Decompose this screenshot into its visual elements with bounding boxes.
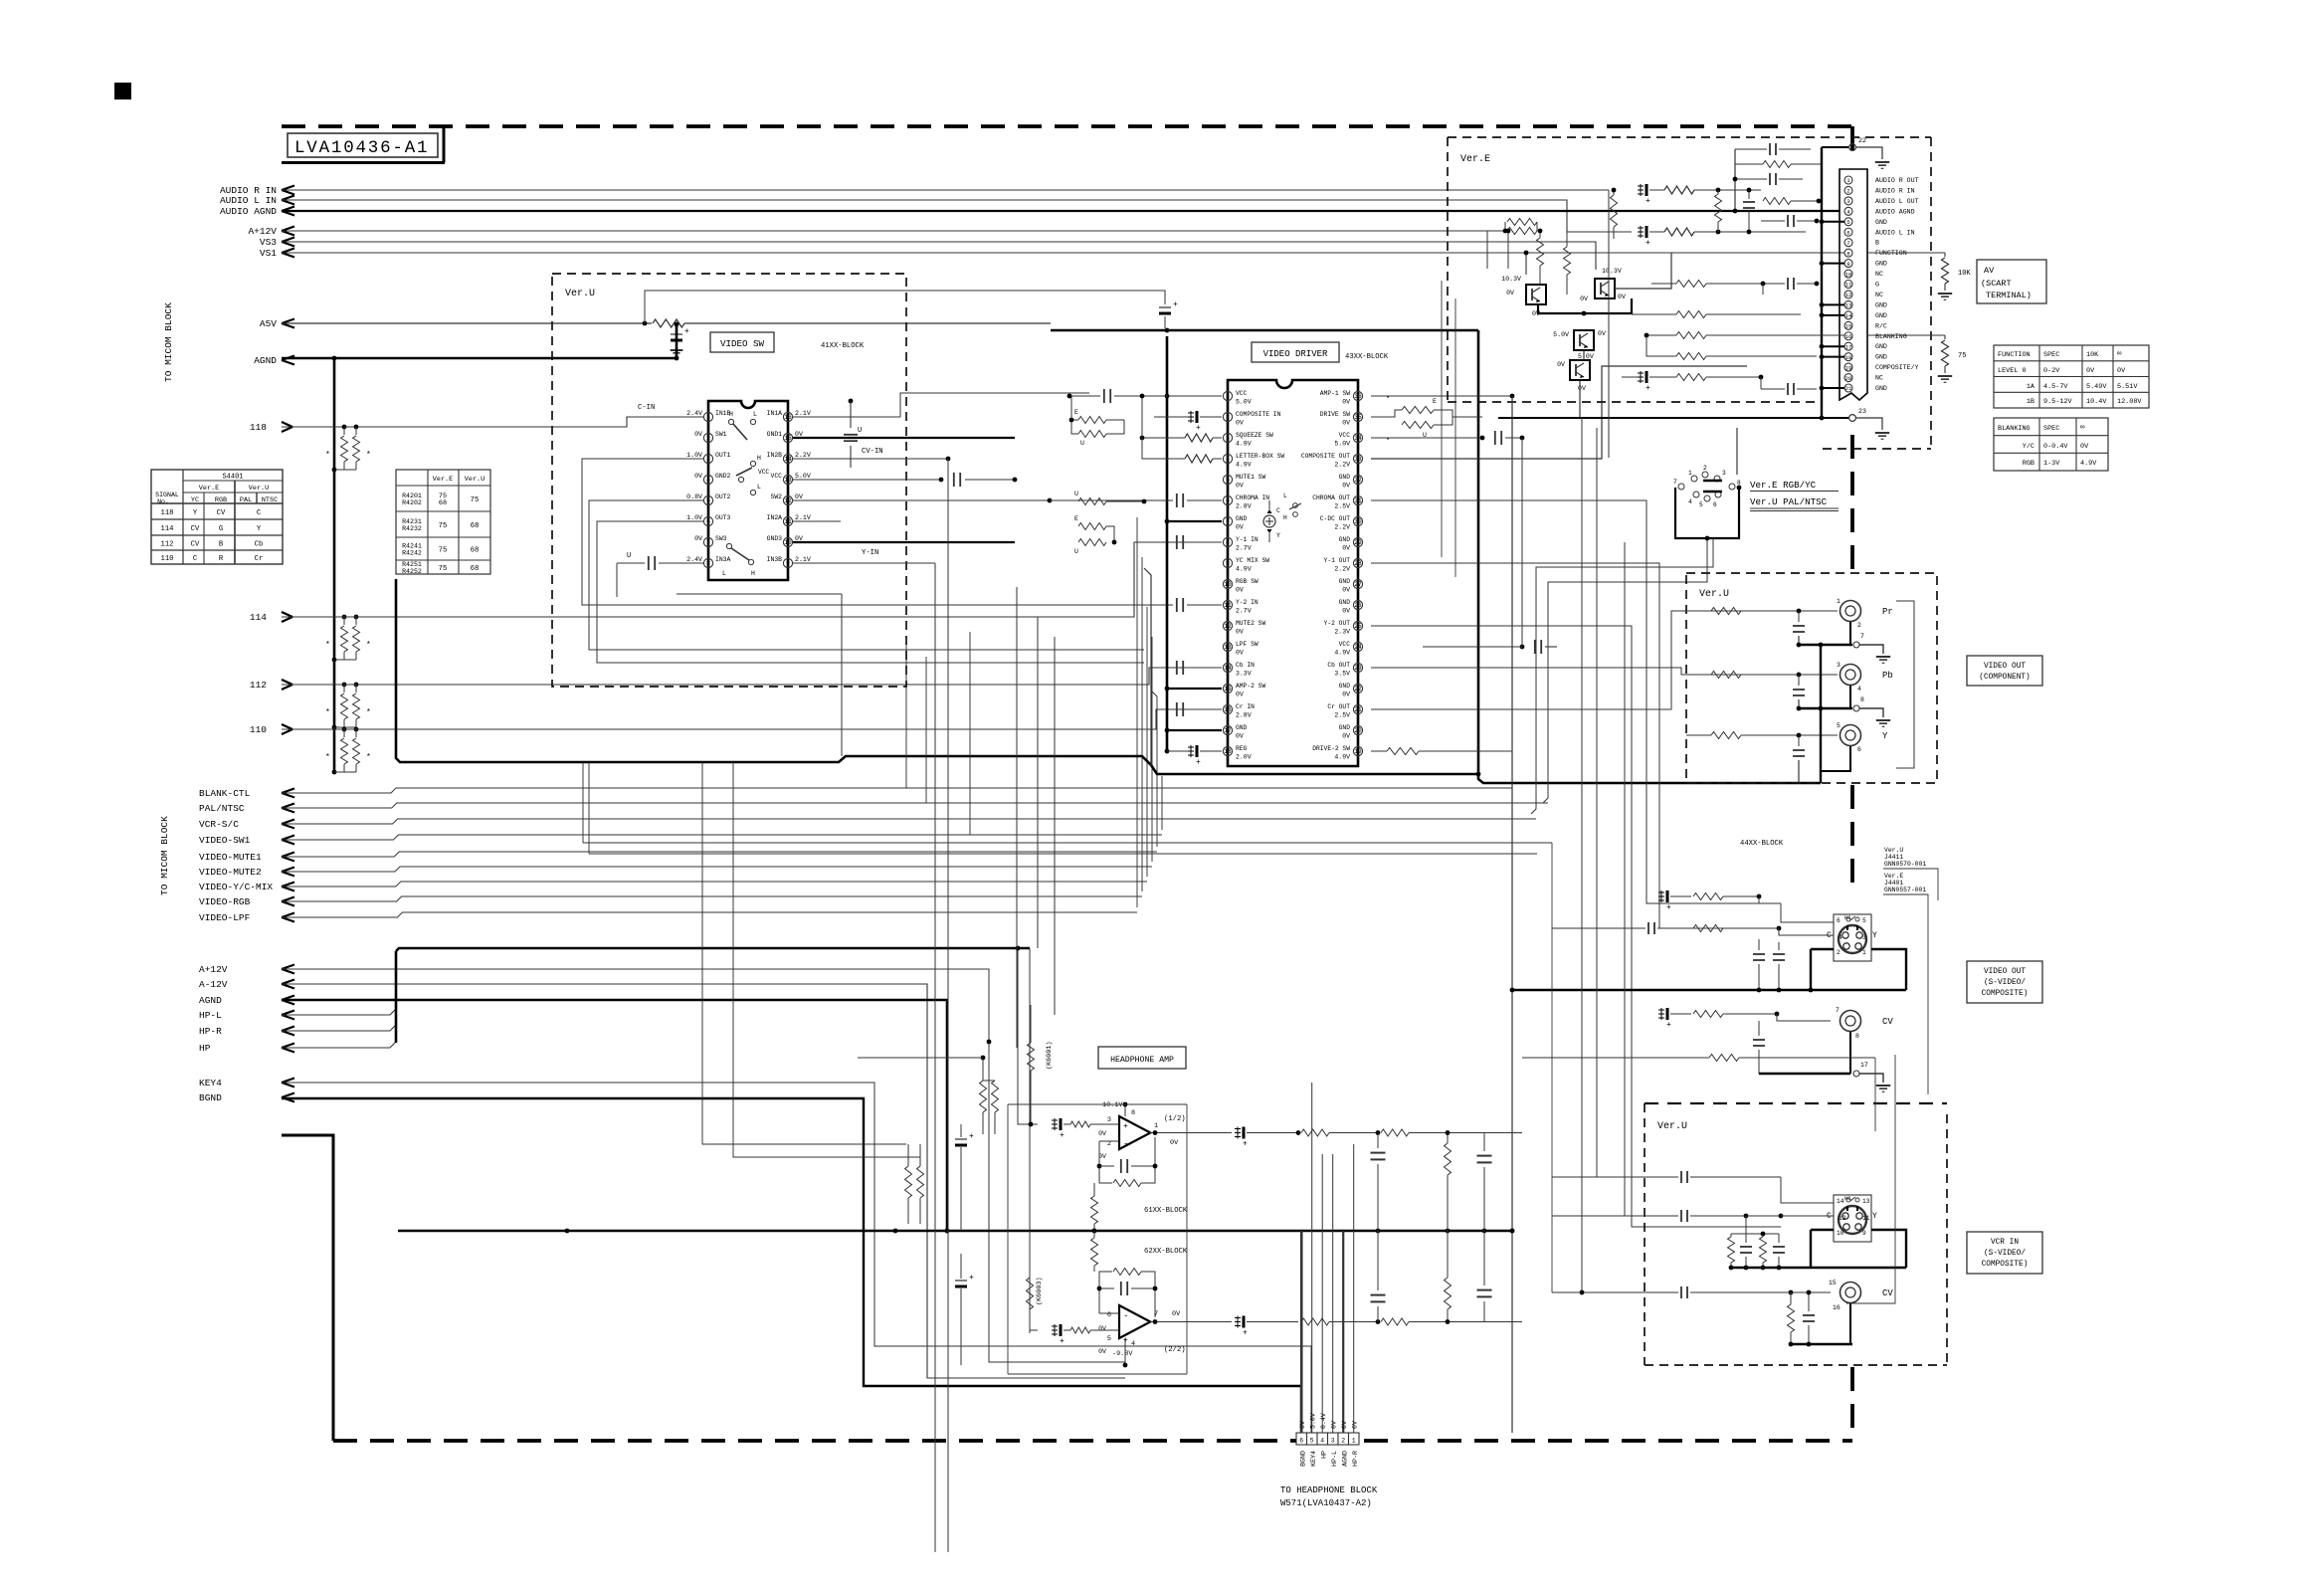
svg-text:9: 9 [1862, 1230, 1866, 1237]
svg-text:3: 3 [1107, 1116, 1111, 1124]
svg-text:11: 11 [1862, 1215, 1870, 1222]
svg-text:REG: REG [1236, 745, 1248, 752]
svg-text:118: 118 [161, 509, 174, 517]
svg-text:GND: GND [1875, 312, 1887, 319]
svg-text:5: 5 [1226, 477, 1230, 484]
svg-text:8: 8 [1846, 250, 1850, 257]
svg-text:1.0V: 1.0V [686, 452, 702, 459]
svg-text:L: L [757, 484, 761, 491]
svg-text:VCC: VCC [1339, 641, 1351, 648]
svg-text:GND: GND [1339, 683, 1351, 690]
svg-text:IN3A: IN3A [715, 556, 731, 563]
svg-text:Ver.U: Ver.U [249, 485, 269, 493]
svg-text:4: 4 [1839, 934, 1842, 941]
svg-text:+: + [1646, 239, 1650, 248]
svg-text:0V: 0V [795, 494, 803, 500]
svg-text:(SCART: (SCART [1981, 279, 2012, 289]
svg-text:CV: CV [1882, 1288, 1893, 1298]
svg-text:7: 7 [706, 539, 710, 546]
svg-text:+: + [1196, 758, 1201, 767]
svg-text:GND: GND [1339, 724, 1351, 731]
svg-text:AUDIO L OUT: AUDIO L OUT [1875, 198, 1919, 205]
svg-text:1: 1 [1846, 177, 1850, 184]
svg-text:1B: 1B [2027, 398, 2034, 406]
svg-text:U: U [1074, 548, 1078, 555]
svg-text:Cb IN: Cb IN [1236, 662, 1255, 669]
svg-text:GND: GND [1339, 578, 1351, 585]
svg-text:11: 11 [1845, 282, 1852, 289]
svg-text:15: 15 [1224, 686, 1232, 692]
svg-text:10.3V: 10.3V [1602, 268, 1622, 275]
svg-text:(1/2): (1/2) [1164, 1115, 1186, 1123]
svg-text:0.8V: 0.8V [686, 494, 702, 500]
svg-text:4: 4 [1226, 456, 1230, 463]
svg-text:GND: GND [1875, 261, 1887, 268]
svg-text:2.3V: 2.3V [1334, 629, 1350, 636]
svg-text:OUT3: OUT3 [715, 514, 731, 521]
svg-text:5.0V: 5.0V [1236, 399, 1252, 406]
svg-text:0V: 0V [1172, 1310, 1181, 1318]
svg-text:E: E [1074, 515, 1078, 522]
svg-text:COMPOSITE OUT: COMPOSITE OUT [1301, 453, 1350, 460]
svg-text:3.3V: 3.3V [1236, 671, 1252, 678]
svg-text:LEVEL 0: LEVEL 0 [1998, 367, 2027, 375]
svg-text:CV: CV [191, 525, 200, 533]
svg-text:6: 6 [1713, 501, 1717, 508]
svg-text:0V: 0V [1618, 294, 1626, 300]
svg-text:NTSC: NTSC [262, 496, 278, 504]
svg-text:∞: ∞ [2117, 350, 2122, 358]
svg-text:5.0V: 5.0V [1553, 331, 1569, 338]
svg-text:9: 9 [1846, 261, 1850, 268]
svg-text:VIDEO OUT: VIDEO OUT [1984, 663, 2026, 671]
svg-text:AUDIO L IN: AUDIO L IN [220, 195, 277, 206]
svg-text:+: + [969, 1132, 974, 1141]
svg-text:112: 112 [250, 680, 267, 691]
svg-text:Ver.E RGB/YC: Ver.E RGB/YC [1750, 480, 1817, 491]
svg-text:MUTE2 SW: MUTE2 SW [1236, 620, 1265, 627]
svg-text:+: + [684, 327, 689, 336]
svg-text:GND: GND [1875, 354, 1887, 361]
svg-text:2.2V: 2.2V [795, 452, 811, 459]
svg-text:4: 4 [1857, 686, 1861, 692]
svg-text:11: 11 [1224, 602, 1232, 609]
svg-text:10: 10 [784, 539, 792, 546]
svg-text:2: 2 [706, 435, 710, 442]
svg-text:0V: 0V [1299, 1421, 1306, 1429]
svg-text:Y-2 IN: Y-2 IN [1236, 599, 1259, 606]
svg-text:21: 21 [1845, 385, 1852, 392]
svg-text:R4201: R4201 [402, 493, 422, 499]
svg-text:9.5-12V: 9.5-12V [2043, 398, 2072, 406]
svg-text:2.2V: 2.2V [1334, 462, 1350, 469]
svg-text:13: 13 [1845, 302, 1852, 309]
svg-text:R4242: R4242 [402, 550, 422, 557]
svg-text:112: 112 [161, 541, 174, 549]
svg-text:Y: Y [1872, 931, 1877, 940]
svg-text:VIDEO-MUTE2: VIDEO-MUTE2 [199, 867, 262, 878]
svg-text:0V: 0V [1236, 587, 1244, 594]
svg-text:0V: 0V [1341, 1421, 1348, 1429]
svg-text:J4401: J4401 [1884, 880, 1903, 887]
svg-text:2.8V: 2.8V [1236, 712, 1252, 719]
svg-text:(S-VIDEO/: (S-VIDEO/ [1984, 979, 2026, 987]
svg-text:A+12V: A+12V [248, 226, 277, 237]
svg-text:0V: 0V [694, 473, 702, 480]
svg-text:20: 20 [1354, 727, 1362, 734]
svg-text:G: G [219, 525, 223, 533]
svg-text:75: 75 [1958, 352, 1966, 360]
svg-text:28: 28 [1354, 560, 1362, 567]
svg-text:*: * [1386, 438, 1390, 446]
svg-text:1A: 1A [2027, 383, 2035, 391]
svg-text:BGND: BGND [199, 1092, 222, 1103]
svg-text:*: * [366, 641, 371, 650]
svg-text:68: 68 [439, 499, 447, 507]
svg-text:Ver.E: Ver.E [433, 476, 453, 484]
svg-text:GND: GND [1236, 515, 1248, 522]
svg-text:2.5V: 2.5V [1334, 503, 1350, 510]
svg-text:NC: NC [1875, 292, 1883, 298]
svg-text:R4241: R4241 [402, 543, 422, 550]
svg-text:*: * [1386, 396, 1390, 404]
svg-text:12: 12 [784, 497, 792, 504]
svg-text:(2/2): (2/2) [1164, 1346, 1186, 1354]
svg-text:A+12V: A+12V [199, 964, 228, 975]
svg-text:FUNCTION: FUNCTION [1875, 250, 1907, 257]
svg-text:75: 75 [439, 565, 448, 573]
svg-text:25: 25 [1354, 623, 1362, 630]
svg-text:33: 33 [1354, 456, 1362, 463]
svg-text:AGND: AGND [1342, 1451, 1349, 1467]
svg-text:0V: 0V [1342, 399, 1350, 406]
svg-text:NC: NC [1844, 915, 1850, 921]
svg-text:4: 4 [706, 477, 710, 484]
svg-text:AUDIO R IN: AUDIO R IN [1875, 187, 1915, 194]
svg-text:TO HEADPHONE BLOCK: TO HEADPHONE BLOCK [1280, 1485, 1378, 1495]
svg-text:R/C: R/C [1875, 322, 1887, 329]
svg-text:0V: 0V [1098, 1325, 1106, 1332]
svg-text:C: C [193, 555, 198, 563]
svg-text:Y-1 IN: Y-1 IN [1236, 536, 1259, 543]
svg-text:BLANKING: BLANKING [1875, 333, 1907, 340]
svg-text:HP: HP [1321, 1451, 1328, 1459]
svg-text:COMPOSITE): COMPOSITE) [1982, 1261, 2029, 1269]
svg-text:Ver.U: Ver.U [565, 289, 595, 299]
svg-text:Ver.U PAL/NTSC: Ver.U PAL/NTSC [1750, 496, 1828, 507]
svg-text:+: + [969, 1274, 974, 1283]
svg-text:NC: NC [1844, 1196, 1850, 1202]
svg-text:0V: 0V [1342, 420, 1350, 427]
svg-text:VCR IN: VCR IN [1991, 1239, 2019, 1247]
svg-text:+: + [1123, 1336, 1128, 1345]
svg-text:15: 15 [784, 435, 792, 442]
svg-text:1: 1 [1352, 1438, 1356, 1445]
svg-text:E: E [1074, 409, 1078, 416]
svg-text:Ver.U: Ver.U [1657, 1121, 1687, 1132]
svg-text:10.1V: 10.1V [1102, 1101, 1123, 1109]
svg-text:4.9V: 4.9V [1334, 754, 1350, 761]
svg-text:Y: Y [193, 509, 198, 517]
svg-text:LETTER-BOX SW: LETTER-BOX SW [1236, 453, 1284, 460]
svg-text:0V: 0V [1236, 629, 1244, 636]
svg-text:H: H [729, 411, 733, 418]
svg-text:0V: 0V [2086, 367, 2095, 375]
svg-text:GND: GND [1236, 724, 1248, 731]
svg-text:23: 23 [1354, 665, 1362, 672]
svg-text:2: 2 [1226, 414, 1230, 421]
svg-text:S4401: S4401 [222, 474, 243, 482]
svg-text:*: * [325, 753, 330, 762]
svg-text:VCC: VCC [758, 469, 769, 476]
svg-text:(K6001): (K6001) [1046, 1041, 1054, 1070]
svg-text:DRIVE-2 SW: DRIVE-2 SW [1312, 745, 1350, 752]
svg-text:2.1V: 2.1V [795, 410, 811, 417]
svg-text:VCC: VCC [770, 473, 782, 480]
svg-text:10.3V: 10.3V [1501, 276, 1521, 283]
svg-text:0V: 0V [1578, 385, 1586, 392]
svg-text:0V: 0V [1331, 1421, 1338, 1429]
svg-text:+: + [1060, 1131, 1065, 1140]
svg-text:HEADPHONE AMP: HEADPHONE AMP [1110, 1056, 1174, 1065]
svg-text:GND: GND [1875, 219, 1887, 226]
svg-text:IN3B: IN3B [767, 556, 783, 563]
svg-text:0V: 0V [1557, 361, 1565, 368]
svg-text:41XX-BLOCK: 41XX-BLOCK [821, 342, 865, 350]
svg-text:18: 18 [1845, 354, 1852, 361]
svg-text:BLANK-CTL: BLANK-CTL [199, 788, 251, 799]
svg-text:6: 6 [1857, 746, 1861, 753]
svg-text:Y: Y [257, 525, 262, 533]
svg-text:5: 5 [1699, 501, 1703, 508]
svg-text:5.0V: 5.0V [1334, 441, 1350, 448]
svg-text:0V: 0V [1236, 650, 1244, 657]
svg-text:9: 9 [786, 560, 790, 567]
svg-text:62XX-BLOCK: 62XX-BLOCK [1144, 1248, 1188, 1256]
svg-text:VCC: VCC [1339, 432, 1351, 439]
svg-text:TERMINAL): TERMINAL) [1986, 291, 2032, 300]
svg-text:HP-L: HP-L [199, 1010, 222, 1021]
svg-text:3: 3 [1837, 662, 1840, 669]
svg-text:VIDEO-Y/C-MIX: VIDEO-Y/C-MIX [199, 882, 273, 892]
svg-text:HP-R: HP-R [199, 1026, 222, 1037]
svg-text:(K6003): (K6003) [1036, 1277, 1044, 1305]
svg-text:0V: 0V [1098, 1348, 1106, 1355]
svg-text:COMPOSITE/Y: COMPOSITE/Y [1875, 364, 1919, 371]
svg-text:GNN0570-001: GNN0570-001 [1884, 861, 1926, 868]
svg-text:Y-1 OUT: Y-1 OUT [1324, 557, 1351, 564]
svg-text:HP-L: HP-L [1331, 1451, 1338, 1467]
svg-text:VCR-S/C: VCR-S/C [199, 819, 239, 830]
svg-text:7: 7 [1846, 240, 1850, 247]
svg-text:6: 6 [1107, 1311, 1111, 1319]
svg-text:2.8V: 2.8V [1236, 503, 1252, 510]
svg-text:*: * [366, 451, 371, 460]
svg-text:Cb: Cb [255, 541, 264, 549]
svg-text:Cr OUT: Cr OUT [1327, 703, 1350, 710]
svg-text:0V: 0V [694, 431, 702, 438]
svg-text:0-0.4V: 0-0.4V [2043, 443, 2068, 451]
svg-text:32: 32 [1354, 477, 1362, 484]
svg-text:2.5V: 2.5V [1334, 712, 1350, 719]
svg-text:7: 7 [1226, 518, 1230, 525]
svg-text:Y-2 OUT: Y-2 OUT [1324, 620, 1351, 627]
svg-text:SIGNAL: SIGNAL [155, 492, 179, 498]
svg-text:B: B [219, 541, 224, 549]
svg-text:9: 9 [1226, 560, 1230, 567]
svg-text:AGND: AGND [199, 995, 222, 1006]
svg-text:VIDEO-MUTE1: VIDEO-MUTE1 [199, 852, 262, 863]
svg-text:68: 68 [471, 547, 480, 555]
svg-text:W571(LVA10437-A2): W571(LVA10437-A2) [1280, 1498, 1372, 1508]
svg-text:4.9V: 4.9V [1236, 441, 1252, 448]
svg-text:TO MICOM BLOCK: TO MICOM BLOCK [163, 302, 174, 382]
svg-text:1-3V: 1-3V [2043, 460, 2060, 468]
svg-text:43XX-BLOCK: 43XX-BLOCK [1345, 353, 1389, 361]
svg-text:GND1: GND1 [767, 431, 783, 438]
svg-text:2.2V: 2.2V [1334, 524, 1350, 531]
svg-text:-9.8V: -9.8V [1112, 1350, 1133, 1358]
svg-text:8: 8 [1860, 696, 1864, 703]
svg-text:2.7V: 2.7V [1236, 545, 1252, 552]
svg-text:VIDEO SW: VIDEO SW [720, 338, 765, 349]
svg-text:2: 2 [1846, 188, 1850, 195]
svg-text:16: 16 [1224, 706, 1232, 713]
svg-text:0V: 0V [1236, 483, 1244, 490]
svg-text:8: 8 [1131, 1109, 1135, 1117]
svg-text:(COMPONENT): (COMPONENT) [1979, 674, 2030, 682]
svg-text:CV: CV [217, 509, 226, 517]
svg-text:A5V: A5V [260, 318, 277, 329]
svg-text:IN2B: IN2B [767, 452, 783, 459]
svg-text:75: 75 [471, 496, 480, 504]
svg-text:0.4V: 0.4V [1320, 1413, 1327, 1429]
svg-text:AUDIO L IN: AUDIO L IN [1875, 229, 1915, 236]
svg-text:36: 36 [1354, 393, 1362, 400]
svg-text:6: 6 [1846, 229, 1850, 236]
svg-text:5: 5 [706, 497, 710, 504]
svg-text:14: 14 [1837, 1198, 1844, 1205]
svg-text:AV: AV [1984, 266, 1995, 276]
svg-text:2.4V: 2.4V [686, 410, 702, 417]
svg-text:CV: CV [1882, 1017, 1893, 1027]
svg-text:+: + [1173, 300, 1178, 309]
svg-text:B: B [1875, 240, 1879, 247]
svg-text:10K: 10K [2086, 351, 2099, 359]
svg-text:6: 6 [1837, 917, 1840, 924]
svg-text:8: 8 [706, 560, 710, 567]
svg-text:6: 6 [1226, 497, 1230, 504]
svg-text:11: 11 [784, 518, 792, 525]
svg-text:4.9V: 4.9V [1236, 566, 1252, 573]
svg-text:PAL: PAL [240, 496, 252, 504]
svg-text:HP-R: HP-R [1352, 1451, 1359, 1467]
svg-text:C: C [1276, 507, 1280, 514]
svg-text:L: L [722, 570, 726, 577]
svg-text:Cr: Cr [255, 555, 264, 563]
svg-text:68: 68 [471, 565, 480, 573]
svg-text:VIDEO-LPF: VIDEO-LPF [199, 912, 251, 923]
svg-text:+: + [1196, 424, 1201, 433]
svg-text:VIDEO OUT: VIDEO OUT [1984, 968, 2026, 976]
svg-text:7: 7 [1860, 633, 1864, 640]
svg-text:0V: 0V [2080, 443, 2089, 451]
svg-text:R4251: R4251 [402, 561, 422, 568]
svg-text:15: 15 [1829, 1280, 1837, 1286]
svg-text:0V: 0V [1352, 1421, 1359, 1429]
svg-text:NC: NC [1875, 375, 1883, 382]
svg-text:0V: 0V [1342, 483, 1350, 490]
svg-text:10.4V: 10.4V [2086, 398, 2107, 406]
svg-text:R4252: R4252 [402, 568, 422, 575]
svg-text:SW3: SW3 [715, 535, 727, 542]
svg-text:5.51V: 5.51V [2117, 383, 2138, 391]
svg-text:75: 75 [439, 522, 448, 530]
svg-text:GND: GND [1875, 385, 1887, 392]
svg-text:21: 21 [1354, 706, 1362, 713]
svg-text:13: 13 [784, 477, 792, 484]
svg-text:HP: HP [199, 1043, 211, 1054]
svg-text:AMP-2 SW: AMP-2 SW [1236, 683, 1265, 690]
svg-text:3: 3 [706, 456, 710, 463]
svg-text:18: 18 [1224, 748, 1232, 755]
svg-text:AUDIO AGND: AUDIO AGND [1875, 208, 1915, 215]
svg-text:14: 14 [1224, 665, 1232, 672]
svg-text:G: G [1875, 282, 1879, 289]
svg-text:0V: 0V [1342, 587, 1350, 594]
svg-text:+: + [1646, 197, 1650, 206]
svg-text:5.0V: 5.0V [1310, 1413, 1317, 1429]
svg-text:17: 17 [1224, 727, 1232, 734]
svg-text:H: H [757, 455, 761, 462]
svg-text:17: 17 [1860, 1062, 1868, 1069]
svg-text:NC: NC [1875, 271, 1883, 278]
svg-text:Y: Y [1882, 731, 1888, 741]
svg-text:1: 1 [1862, 949, 1866, 956]
svg-text:0V: 0V [1342, 733, 1350, 740]
svg-text:44XX-BLOCK: 44XX-BLOCK [1740, 840, 1784, 848]
svg-text:VS3: VS3 [260, 237, 277, 248]
svg-text:Pb: Pb [1882, 671, 1893, 681]
svg-text:J4411: J4411 [1884, 854, 1903, 861]
svg-text:118: 118 [250, 422, 267, 433]
svg-text:+: + [1646, 384, 1650, 393]
svg-text:C-DC OUT: C-DC OUT [1320, 515, 1350, 522]
svg-text:RGB: RGB [2023, 460, 2034, 468]
svg-text:Pr: Pr [1882, 607, 1893, 617]
svg-text:0V: 0V [694, 535, 702, 542]
svg-text:Ver.U: Ver.U [1699, 589, 1729, 600]
svg-text:SQUEEZE SW: SQUEEZE SW [1236, 432, 1273, 439]
svg-text:L: L [753, 411, 757, 418]
svg-text:AUDIO R OUT: AUDIO R OUT [1875, 177, 1919, 184]
svg-text:+: + [1060, 1337, 1065, 1346]
svg-text:Ver.E: Ver.E [199, 485, 219, 493]
svg-text:*: * [325, 708, 330, 717]
svg-text:1: 1 [706, 414, 710, 421]
svg-text:Ver.E: Ver.E [1460, 154, 1490, 165]
svg-text:GND2: GND2 [715, 473, 731, 480]
svg-text:110: 110 [250, 724, 267, 735]
svg-text:5: 5 [1846, 219, 1850, 226]
svg-text:0V: 0V [1342, 608, 1350, 615]
svg-text:VIDEO-SW1: VIDEO-SW1 [199, 835, 251, 846]
svg-text:GNN0557-001: GNN0557-001 [1884, 887, 1926, 893]
svg-text:10: 10 [1845, 271, 1852, 278]
svg-text:6: 6 [1299, 1438, 1303, 1445]
svg-text:2.1V: 2.1V [795, 514, 811, 521]
svg-text:35: 35 [1354, 414, 1362, 421]
